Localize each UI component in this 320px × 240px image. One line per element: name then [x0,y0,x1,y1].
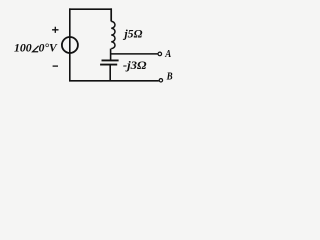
voltage source V1 [62,37,78,53]
label + [52,27,58,33]
terminal A [158,52,162,56]
svg-text:-j3Ω: -j3Ω [123,60,147,72]
capacitor C1 top plate [102,59,119,61]
wire capacitor to bottom [109,65,111,81]
svg-text:j5Ω: j5Ω [122,28,143,40]
node A wire [111,53,158,55]
capacitor C1 bottom plate [100,64,117,66]
wire bottom [69,80,159,82]
wire left vertical [69,8,71,81]
wire top [69,8,112,10]
svg-text:0°V: 0°V [39,41,58,55]
wire inductor to junction [110,49,112,61]
svg-text:B: B [166,72,173,83]
background [0,0,203,94]
terminal B [159,79,162,82]
inductor L1 [111,21,115,48]
svg-text:100: 100 [14,41,32,55]
wire right vertical upper [110,8,112,21]
label - [53,65,58,67]
svg-text:A: A [164,49,171,60]
